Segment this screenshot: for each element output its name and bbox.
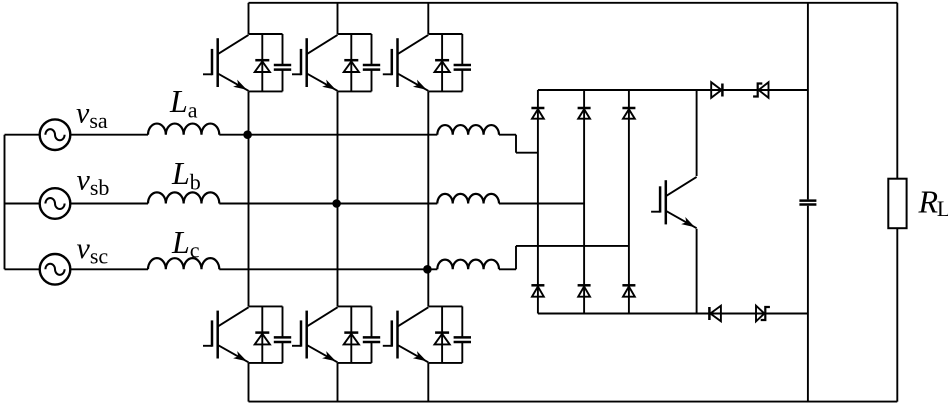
wire: emitter lead Q1 [248, 91, 250, 134]
wire: emitter lead Q6 [427, 363, 429, 402]
diode D1 (antiparallel) [255, 34, 270, 91]
diode D2 (antiparallel) [344, 34, 359, 91]
inductor a2 (boost) [437, 125, 499, 135]
diode D9 (rectifier top) [622, 108, 635, 119]
wire: Q7 collector to top bus [696, 90, 698, 176]
wire: b2 to rectifier leg 2 [499, 203, 584, 205]
wire: a2 to rectifier leg 1 [499, 135, 538, 153]
node: bottom rail of cell 3 [428, 90, 462, 92]
wire: bus to v_sb [5, 203, 40, 205]
transistor Q7 (shunt IGBT) [651, 177, 697, 228]
label v_sc [77, 232, 109, 269]
node: bottom rail of cell 1 [249, 90, 283, 92]
resistor R_L [888, 179, 906, 229]
wire: collector lead Q4 [248, 135, 250, 307]
node a junction dot [243, 130, 252, 139]
node: top rail of cell 2 [338, 33, 372, 35]
label R_L [918, 184, 948, 221]
node: top rail of cell 3 [428, 33, 462, 35]
wire: v_sb to L_b [70, 203, 148, 205]
transistor Q3 (IGBT) [383, 35, 429, 91]
inductor b2 (boost) [437, 194, 499, 204]
wire: c2 to rectifier leg 3 [499, 246, 629, 269]
label L_c [171, 224, 200, 263]
wire: rectifier bottom bus [538, 313, 808, 315]
diode D16 (bottom rail, forward Schottky) [756, 306, 770, 322]
wire: left source bus [4, 135, 6, 270]
node: top rail of cell 5 [338, 305, 372, 307]
wire: bus to v_sa [5, 134, 40, 136]
transistor Q5 (IGBT) [292, 307, 338, 362]
diode D10 (rectifier bottom) [531, 285, 544, 296]
wire: bus to v_sc [5, 268, 40, 270]
capacitor C2 (snubber) [363, 34, 380, 91]
diode D6 (antiparallel) [435, 306, 450, 363]
node c junction dot [423, 265, 432, 274]
wire: L_c to node c and across legs [219, 268, 437, 270]
capacitor C4 (snubber) [274, 306, 291, 363]
wire: v_sc to L_c [70, 268, 148, 270]
capacitor C6 (snubber) [454, 306, 471, 363]
diode D11 (rectifier bottom) [578, 285, 591, 296]
wire: emitter lead Q4 [248, 363, 250, 402]
wire: bottom DC bus [249, 401, 898, 403]
capacitor C1 (snubber) [274, 34, 291, 91]
wire: load branch vertical [896, 3, 898, 402]
node: bottom rail of cell 5 [338, 362, 372, 364]
label L_b [171, 155, 201, 195]
wire: L_a to node a and across legs [219, 134, 437, 136]
node: top rail of cell 6 [428, 305, 462, 307]
diode D15 (bottom rail, reverse) [709, 306, 721, 322]
transistor Q1 (IGBT) [203, 35, 249, 91]
wire: collector lead Q5 [337, 204, 339, 307]
wire: emitter lead Q3 [427, 91, 429, 269]
node: bottom rail of cell 2 [338, 90, 372, 92]
wire: top DC bus [249, 2, 898, 4]
ac source v_sa [40, 119, 71, 150]
diode D8 (rectifier top) [578, 108, 591, 119]
diode D14 (top rail, reverse Schottky) [753, 82, 768, 98]
diode D13 (top rail, forward) [711, 82, 722, 98]
wire: C7 branch vertical [807, 3, 809, 402]
inductor c2 (boost) [437, 260, 499, 270]
wire: rectifier top bus [538, 89, 808, 91]
wire: L_b to node b and across legs [219, 203, 437, 205]
diode D4 (antiparallel) [255, 306, 270, 363]
wire: rectifier leg 3 [628, 90, 630, 314]
ac source v_sb [40, 188, 71, 219]
transistor Q2 (IGBT) [292, 35, 338, 91]
transistor Q4 (IGBT) [203, 307, 249, 362]
diode D7 (rectifier top) [531, 108, 544, 119]
wire: emitter lead Q5 [337, 363, 339, 402]
node: top rail of cell 1 [249, 33, 283, 35]
wire: emitter lead Q2 [337, 91, 339, 203]
label v_sb [77, 164, 110, 201]
node: bottom rail of cell 4 [249, 362, 283, 364]
diode D5 (antiparallel) [344, 306, 359, 363]
ac source v_sc [40, 254, 71, 285]
wire: collector lead Q6 [427, 269, 429, 306]
wire: collector lead Q2 [337, 3, 339, 34]
wire: v_sa to L_a [70, 134, 148, 136]
wire: rectifier leg 1 [537, 90, 539, 314]
node b junction dot [332, 199, 341, 208]
node: top rail of cell 4 [249, 305, 283, 307]
node: bottom rail of cell 6 [428, 362, 462, 364]
inductor L_c [148, 258, 219, 269]
transistor Q6 (IGBT) [383, 307, 429, 362]
inductor L_b [148, 192, 219, 203]
inductor L_a [148, 124, 219, 135]
wire: Q7 emitter to bottom bus [696, 229, 698, 314]
diode D12 (rectifier bottom) [622, 285, 635, 296]
wire: collector lead Q3 [427, 3, 429, 34]
capacitor C5 (snubber) [363, 306, 380, 363]
wire: collector lead Q1 [248, 3, 250, 34]
wire: rectifier leg 2 [583, 90, 585, 314]
label v_sa [76, 97, 108, 134]
capacitor C7 (dc link) [799, 201, 816, 205]
capacitor C3 (snubber) [454, 34, 471, 91]
diode D3 (antiparallel) [435, 34, 450, 91]
label L_a [169, 83, 198, 123]
